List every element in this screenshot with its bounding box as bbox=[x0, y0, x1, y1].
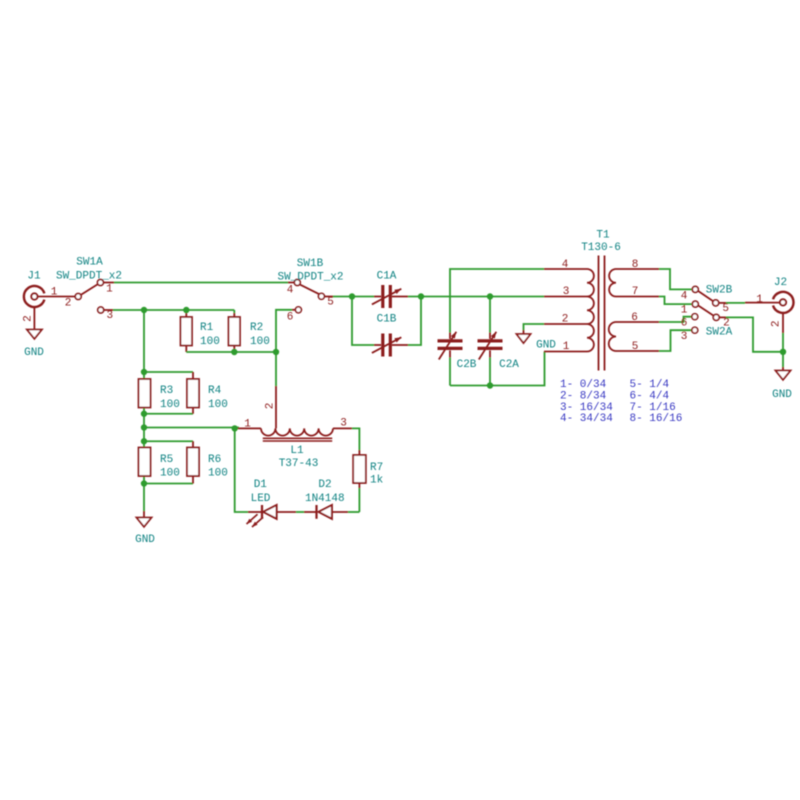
svg-text:3: 3 bbox=[340, 418, 347, 430]
svg-text:4: 4 bbox=[681, 290, 688, 302]
svg-text:8- 16/16: 8- 16/16 bbox=[630, 413, 683, 425]
svg-text:R5: R5 bbox=[160, 454, 173, 466]
svg-text:J2: J2 bbox=[774, 277, 787, 289]
svg-text:3- 16/34: 3- 16/34 bbox=[560, 402, 613, 414]
svg-text:6: 6 bbox=[681, 318, 688, 330]
svg-text:T1: T1 bbox=[596, 230, 610, 242]
svg-text:C1A: C1A bbox=[377, 271, 397, 283]
svg-text:GND: GND bbox=[772, 389, 792, 401]
svg-text:SW_DPDT_x2: SW_DPDT_x2 bbox=[277, 272, 343, 284]
svg-text:SW2B: SW2B bbox=[706, 285, 733, 297]
svg-text:2: 2 bbox=[65, 298, 72, 310]
svg-text:4: 4 bbox=[287, 285, 294, 297]
svg-text:2- 8/34: 2- 8/34 bbox=[560, 390, 607, 402]
svg-text:SW1B: SW1B bbox=[297, 258, 324, 270]
svg-text:3: 3 bbox=[681, 331, 688, 343]
svg-text:7: 7 bbox=[632, 286, 639, 298]
svg-text:J1: J1 bbox=[27, 271, 41, 283]
svg-text:5: 5 bbox=[632, 341, 639, 353]
svg-text:R1: R1 bbox=[200, 322, 214, 334]
svg-text:4: 4 bbox=[562, 259, 569, 271]
svg-text:R4: R4 bbox=[208, 385, 222, 397]
svg-text:5: 5 bbox=[327, 296, 334, 308]
svg-text:3: 3 bbox=[563, 286, 570, 298]
svg-text:2: 2 bbox=[265, 403, 277, 410]
svg-text:6- 4/4: 6- 4/4 bbox=[630, 390, 670, 402]
svg-text:100: 100 bbox=[250, 336, 270, 348]
svg-text:C2B: C2B bbox=[457, 359, 477, 371]
svg-text:2: 2 bbox=[770, 320, 782, 327]
svg-text:D2: D2 bbox=[318, 479, 331, 491]
svg-text:5- 1/4: 5- 1/4 bbox=[630, 379, 670, 391]
svg-text:1k: 1k bbox=[370, 474, 384, 486]
svg-text:100: 100 bbox=[208, 468, 228, 480]
svg-text:5: 5 bbox=[722, 303, 729, 315]
svg-text:2: 2 bbox=[562, 314, 569, 326]
svg-text:T130-6: T130-6 bbox=[581, 242, 621, 254]
svg-text:1N4148: 1N4148 bbox=[305, 493, 345, 505]
svg-text:R2: R2 bbox=[250, 322, 263, 334]
svg-text:GND: GND bbox=[135, 534, 155, 546]
svg-text:1: 1 bbox=[244, 418, 251, 430]
svg-text:4- 34/34: 4- 34/34 bbox=[560, 413, 613, 425]
svg-text:6: 6 bbox=[287, 312, 294, 324]
svg-text:LED: LED bbox=[251, 493, 271, 505]
svg-text:3: 3 bbox=[106, 310, 113, 322]
svg-text:R7: R7 bbox=[370, 462, 383, 474]
svg-text:GND: GND bbox=[536, 340, 556, 352]
svg-text:C1B: C1B bbox=[377, 314, 397, 326]
svg-text:100: 100 bbox=[208, 399, 228, 411]
svg-text:1- 0/34: 1- 0/34 bbox=[560, 379, 607, 391]
svg-text:D1: D1 bbox=[254, 479, 268, 491]
svg-text:100: 100 bbox=[200, 336, 220, 348]
svg-text:R6: R6 bbox=[208, 454, 221, 466]
svg-text:L1: L1 bbox=[290, 445, 304, 457]
svg-text:1: 1 bbox=[106, 283, 113, 295]
svg-text:R3: R3 bbox=[160, 385, 173, 397]
svg-text:2: 2 bbox=[723, 318, 730, 330]
svg-text:1: 1 bbox=[756, 294, 763, 306]
svg-text:1: 1 bbox=[681, 305, 688, 317]
svg-text:2: 2 bbox=[23, 315, 35, 322]
svg-text:SW1A: SW1A bbox=[76, 257, 103, 269]
svg-text:8: 8 bbox=[632, 259, 639, 271]
svg-text:100: 100 bbox=[160, 399, 180, 411]
svg-text:7- 1/16: 7- 1/16 bbox=[630, 402, 676, 414]
svg-text:SW_DPDT_x2: SW_DPDT_x2 bbox=[56, 271, 122, 283]
svg-text:100: 100 bbox=[160, 468, 180, 480]
svg-text:1: 1 bbox=[51, 287, 58, 299]
svg-text:1: 1 bbox=[563, 341, 570, 353]
svg-text:C2A: C2A bbox=[499, 359, 519, 371]
svg-text:6: 6 bbox=[631, 312, 638, 324]
svg-text:T37-43: T37-43 bbox=[279, 458, 319, 470]
svg-text:GND: GND bbox=[24, 347, 44, 359]
